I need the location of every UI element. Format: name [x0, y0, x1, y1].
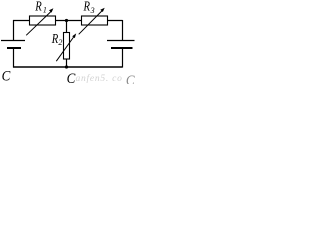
node junction top — [65, 19, 68, 22]
wire bottom horizontal — [13, 66, 123, 68]
resistor R1 — [30, 16, 56, 25]
node junction bottom — [65, 65, 68, 68]
resistor R2 — [64, 33, 70, 60]
resistor R3 arrow — [79, 11, 103, 35]
svg-text:C: C — [67, 70, 76, 84]
wire left vertical — [13, 20, 15, 40]
capacitor C1 bottom plate — [7, 47, 21, 49]
svg-text:2: 2 — [58, 38, 62, 47]
wire R2 stem bottom — [66, 59, 68, 67]
svg-text:C: C — [126, 72, 135, 84]
wire R2 stem top — [66, 20, 68, 32]
capacitor C3 top plate — [107, 40, 135, 42]
svg-text:R: R — [34, 0, 42, 14]
wire right vertical — [122, 20, 124, 40]
capacitor C3 bottom plate — [111, 47, 133, 49]
wire top horizontal — [13, 20, 123, 22]
resistor R3 — [82, 16, 108, 25]
svg-text:anfen5. co: anfen5. co — [76, 73, 123, 84]
svg-text:3: 3 — [90, 6, 95, 15]
wire C1 stem — [13, 49, 15, 68]
capacitor C1 top plate — [1, 40, 25, 42]
svg-text:1: 1 — [43, 5, 47, 14]
resistor R1 arrow — [26, 12, 51, 36]
wire C3 stem — [122, 49, 124, 68]
svg-text:R: R — [83, 0, 91, 14]
svg-text:C: C — [2, 68, 11, 84]
svg-text:R: R — [51, 31, 59, 47]
resistor R2 arrow — [56, 37, 74, 62]
